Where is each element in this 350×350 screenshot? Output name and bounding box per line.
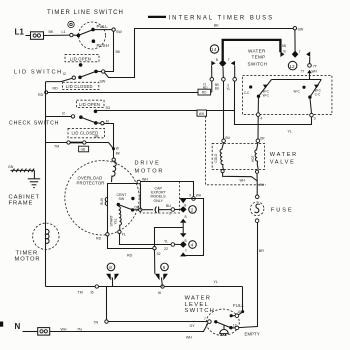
terminal 4 connector bbox=[180, 241, 197, 257]
legend INTERNAL TIMER BUSS bbox=[148, 15, 274, 21]
svg-text:7N: 7N bbox=[94, 321, 99, 325]
centrifugal switch bbox=[117, 193, 142, 211]
svg-text:LID SWITCH: LID SWITCH bbox=[14, 70, 63, 76]
svg-text:7: 7 bbox=[204, 317, 206, 321]
wire 7T from connector to temp switch bbox=[301, 57, 318, 80]
terminal 2 connector bbox=[180, 203, 197, 213]
svg-text:T: T bbox=[110, 277, 112, 281]
svg-text:LID CLOSED: LID CLOSED bbox=[66, 84, 93, 89]
lid switch LID CLOSED label bbox=[63, 82, 99, 89]
svg-text:BK: BK bbox=[116, 50, 121, 54]
svg-text:B: B bbox=[185, 215, 187, 219]
svg-text:12: 12 bbox=[289, 64, 295, 69]
svg-text:M: M bbox=[106, 120, 109, 124]
svg-text:YL: YL bbox=[214, 280, 218, 284]
wire RD from lid switch common to left vertical bbox=[47, 78, 72, 90]
svg-text:RD: RD bbox=[203, 86, 208, 90]
svg-text:SW: SW bbox=[298, 28, 304, 32]
water temp switch box bbox=[243, 75, 332, 114]
svg-text:16: 16 bbox=[237, 310, 241, 314]
svg-text:TIMER LINE SWITCH: TIMER LINE SWITCH bbox=[47, 10, 124, 16]
svg-text:EMPTY: EMPTY bbox=[245, 332, 260, 337]
svg-text:6: 6 bbox=[163, 265, 166, 270]
wire TM from left vertical to motor vertical bbox=[46, 141, 114, 149]
wire SW net from lid switch up to buss area bbox=[104, 23, 293, 77]
svg-text:3: 3 bbox=[314, 117, 316, 121]
svg-text:C-C: C-C bbox=[315, 92, 321, 96]
svg-text:C-C: C-C bbox=[244, 91, 250, 95]
svg-text:WH: WH bbox=[312, 70, 318, 74]
wire BU to terminal 2 bbox=[166, 204, 180, 211]
label OVERLOAD PROTECTOR bbox=[77, 176, 105, 186]
svg-text:TIMER: TIMER bbox=[16, 250, 39, 256]
wire bottom horizontal to water level switch bbox=[46, 280, 243, 295]
svg-text:7N: 7N bbox=[77, 328, 82, 332]
svg-text:W-C: W-C bbox=[294, 90, 301, 94]
svg-text:RD: RD bbox=[53, 87, 59, 91]
svg-text:9: 9 bbox=[189, 193, 191, 197]
svg-text:RD: RD bbox=[38, 93, 44, 97]
svg-text:SW: SW bbox=[119, 197, 125, 201]
temp switch terminal 3 bbox=[310, 113, 316, 120]
node RD 32 junction bbox=[127, 247, 161, 258]
fuse bbox=[250, 195, 293, 223]
svg-text:TEMP: TEMP bbox=[252, 55, 266, 60]
svg-text:T: T bbox=[299, 50, 301, 54]
svg-text:BK: BK bbox=[49, 30, 54, 34]
wire RD stub from connector 14 to RD horizontal bbox=[211, 81, 213, 92]
svg-text:7T: 7T bbox=[301, 69, 305, 73]
svg-text:SWITCH: SWITCH bbox=[185, 308, 216, 314]
connector label RD boxed bbox=[198, 89, 211, 95]
svg-text:I6: I6 bbox=[158, 291, 161, 295]
start winding bbox=[109, 206, 121, 230]
check switch LID CLOSED label bbox=[68, 128, 105, 138]
capacitor box CAP EXPORT MODELS ONLY bbox=[140, 182, 179, 213]
svg-text:YEL: YEL bbox=[114, 218, 118, 224]
node RD junction circle on left vertical bbox=[38, 91, 48, 97]
wire from bottom wire down to FULL contact bbox=[238, 287, 244, 315]
svg-text:PROTECTOR: PROTECTOR bbox=[77, 181, 105, 186]
svg-text:RUN: RUN bbox=[100, 197, 104, 205]
title WATER LEVEL SWITCH bbox=[185, 296, 216, 314]
svg-text:I2: I2 bbox=[62, 112, 65, 116]
svg-text:T: T bbox=[185, 249, 187, 253]
wire WH from motor to terminal box bbox=[137, 178, 202, 201]
cold solenoid bbox=[214, 136, 230, 173]
overload protector circle bbox=[65, 161, 139, 235]
svg-text:HOT: HOT bbox=[251, 155, 255, 162]
svg-text:LEVEL: LEVEL bbox=[185, 302, 210, 308]
svg-text:BU: BU bbox=[226, 136, 231, 140]
temp switch right contact group bbox=[294, 80, 322, 114]
wire RD 32 down to connector 6 bbox=[154, 250, 156, 274]
svg-text:GY: GY bbox=[190, 324, 196, 328]
svg-text:W: W bbox=[116, 146, 119, 150]
lid switch LID OPEN label bbox=[65, 55, 99, 67]
wire WH valve commons to fuse bbox=[223, 173, 265, 195]
svg-text:RD: RD bbox=[127, 254, 133, 258]
wire RD horizontal to connector 14 bbox=[48, 92, 212, 94]
svg-text:VALVE: VALVE bbox=[270, 159, 296, 165]
svg-text:YL: YL bbox=[288, 130, 292, 134]
connector 14 bbox=[210, 45, 235, 67]
svg-text:PULL: PULL bbox=[97, 24, 109, 29]
wire left vertical main bbox=[46, 82, 48, 287]
svg-text:YL: YL bbox=[226, 87, 230, 91]
wire BK from check switch M down to drive motor bbox=[104, 124, 121, 159]
svg-text:BU: BU bbox=[166, 204, 171, 208]
ground wire GN bbox=[8, 165, 34, 179]
svg-text:FL: FL bbox=[122, 232, 126, 236]
drive motor box bbox=[108, 184, 153, 249]
wire BK down from timer line switch to lid switch bbox=[105, 31, 121, 71]
svg-text:3G: 3G bbox=[106, 106, 111, 110]
svg-text:LID OPEN: LID OPEN bbox=[79, 102, 100, 107]
pressure dome bbox=[220, 325, 228, 335]
svg-text:YL: YL bbox=[164, 240, 168, 244]
svg-text:MOTOR: MOTOR bbox=[135, 169, 165, 175]
svg-text:FUSE: FUSE bbox=[271, 208, 294, 214]
connector 8 bbox=[106, 263, 119, 286]
svg-text:I6: I6 bbox=[91, 291, 94, 295]
svg-text:SWITCH: SWITCH bbox=[248, 61, 268, 66]
svg-text:WATER: WATER bbox=[248, 49, 266, 54]
connector pin below box top bbox=[180, 199, 186, 203]
svg-text:2: 2 bbox=[191, 208, 194, 213]
terminal L1 bbox=[15, 28, 44, 40]
svg-text:I2: I2 bbox=[63, 72, 66, 76]
terminal RD on motor box bbox=[96, 233, 109, 241]
timer cam 12 bbox=[288, 61, 297, 70]
connector 6 bbox=[155, 263, 168, 286]
svg-text:WH: WH bbox=[186, 335, 192, 339]
svg-text:MOTOR: MOTOR bbox=[15, 257, 41, 263]
wire 5B BU from connector 14 down to water valve bbox=[223, 81, 225, 139]
svg-text:DRIVE: DRIVE bbox=[135, 161, 161, 167]
hot solenoid bbox=[251, 136, 265, 173]
svg-text:L1: L1 bbox=[62, 30, 66, 34]
svg-text:BR: BR bbox=[259, 249, 264, 253]
timer line switch cycle symbol bbox=[68, 21, 74, 27]
svg-text:SW: SW bbox=[100, 80, 106, 84]
svg-text:COLD: COLD bbox=[214, 153, 218, 163]
run winding bbox=[100, 197, 107, 205]
svg-text:14: 14 bbox=[211, 47, 217, 52]
label WATER VALVE bbox=[270, 152, 298, 165]
svg-text:B: B bbox=[284, 50, 286, 54]
svg-text:5B: 5B bbox=[282, 44, 286, 48]
wire from check switch LID OPEN to YL net bbox=[97, 110, 234, 112]
check switch contacts bbox=[46, 106, 111, 125]
svg-text:32: 32 bbox=[157, 252, 161, 256]
connector label GB boxed bbox=[79, 146, 89, 152]
svg-text:FRAME: FRAME bbox=[9, 200, 34, 206]
wire OR from terminal 4 down to water valve bbox=[257, 116, 259, 139]
capacitor C bbox=[142, 207, 171, 216]
svg-text:GN: GN bbox=[8, 165, 14, 169]
water level switch bbox=[204, 303, 260, 336]
water valve box bbox=[212, 143, 264, 169]
wire SW from buss to connector T bbox=[293, 27, 304, 52]
wire from pin pair to RD 32 node bbox=[155, 228, 184, 247]
wire BR from fuse to water level switch bbox=[239, 223, 265, 328]
svg-text:SW: SW bbox=[116, 30, 122, 34]
svg-text:RD: RD bbox=[96, 236, 102, 240]
svg-text:WATER: WATER bbox=[270, 152, 298, 158]
terminal FL bbox=[118, 230, 126, 236]
terminal box with terminals 2 and 4 bbox=[180, 199, 204, 256]
wire GY from bottom wire to water level switch common bbox=[94, 287, 208, 329]
svg-text:B: B bbox=[184, 203, 186, 207]
svg-text:B: B bbox=[216, 58, 218, 62]
svg-text:2: 2 bbox=[169, 212, 171, 216]
wire 3 YL from connector 14 down to temp switch terminal 3 bbox=[235, 81, 312, 124]
ground symbol cabinet frame bbox=[28, 179, 40, 188]
svg-text:GB: GB bbox=[81, 148, 86, 152]
svg-text:INTERNAL TIMER BUSS: INTERNAL TIMER BUSS bbox=[169, 15, 275, 21]
temp switch terminal 4 bbox=[256, 113, 262, 121]
connector pin pair between 2 and 4 bbox=[180, 215, 187, 243]
wire WH 7N from N to water level switch bbox=[50, 323, 208, 339]
check switch LID OPEN label bbox=[77, 100, 105, 107]
internal timer buss heavy line bbox=[223, 40, 281, 60]
svg-text:WATER: WATER bbox=[185, 296, 212, 302]
title DRIVE MOTOR bbox=[135, 161, 165, 175]
water valve outer dashed box bbox=[197, 110, 266, 185]
svg-text:WH: WH bbox=[199, 112, 205, 116]
wire BK from L1 to timer line switch bbox=[44, 30, 70, 36]
label CABINET FRAME bbox=[9, 194, 40, 206]
svg-text:4: 4 bbox=[260, 116, 262, 120]
water temp switch internal rail bbox=[272, 79, 322, 81]
svg-text:N: N bbox=[15, 322, 21, 331]
label WATER TEMP SWITCH bbox=[248, 49, 268, 67]
svg-text:CHECK SWITCH: CHECK SWITCH bbox=[9, 121, 59, 127]
svg-text:LID OPEN: LID OPEN bbox=[70, 56, 91, 61]
svg-text:B: B bbox=[185, 239, 187, 243]
svg-text:TM: TM bbox=[54, 145, 59, 149]
overload heater coil bbox=[112, 158, 117, 182]
svg-text:RD: RD bbox=[202, 91, 207, 95]
svg-text:13: 13 bbox=[233, 323, 237, 327]
svg-text:FULL: FULL bbox=[233, 303, 245, 308]
svg-text:4: 4 bbox=[191, 243, 194, 248]
timer line switch bbox=[70, 22, 123, 49]
terminal N bbox=[15, 322, 50, 335]
wire YL 22 from FL to terminal 4 bbox=[120, 234, 181, 251]
svg-text:OR: OR bbox=[260, 136, 265, 140]
temp switch left contact group bbox=[244, 80, 272, 113]
timer motor bbox=[33, 223, 59, 249]
svg-text:WH: WH bbox=[61, 327, 67, 331]
svg-text:8: 8 bbox=[109, 265, 112, 270]
connector trio 5B B T bbox=[280, 44, 310, 58]
lid switch contacts bbox=[63, 70, 106, 84]
svg-text:WH: WH bbox=[259, 183, 265, 187]
connector 14 stems and terminals bbox=[203, 66, 237, 91]
label TIMER MOTOR bbox=[15, 250, 41, 262]
svg-text:WH: WH bbox=[196, 193, 202, 197]
svg-text:ONLY: ONLY bbox=[154, 199, 164, 203]
svg-text:W-C: W-C bbox=[263, 93, 270, 97]
svg-text:WH: WH bbox=[240, 178, 246, 182]
page edge mark bbox=[0, 322, 3, 327]
svg-text:TM: TM bbox=[78, 291, 83, 295]
svg-text:T: T bbox=[228, 58, 230, 62]
svg-text:PUSH: PUSH bbox=[97, 43, 109, 48]
svg-text:BU: BU bbox=[215, 87, 220, 91]
svg-text:22: 22 bbox=[164, 247, 168, 251]
svg-text:L1: L1 bbox=[15, 28, 25, 37]
svg-text:BK: BK bbox=[214, 23, 219, 27]
